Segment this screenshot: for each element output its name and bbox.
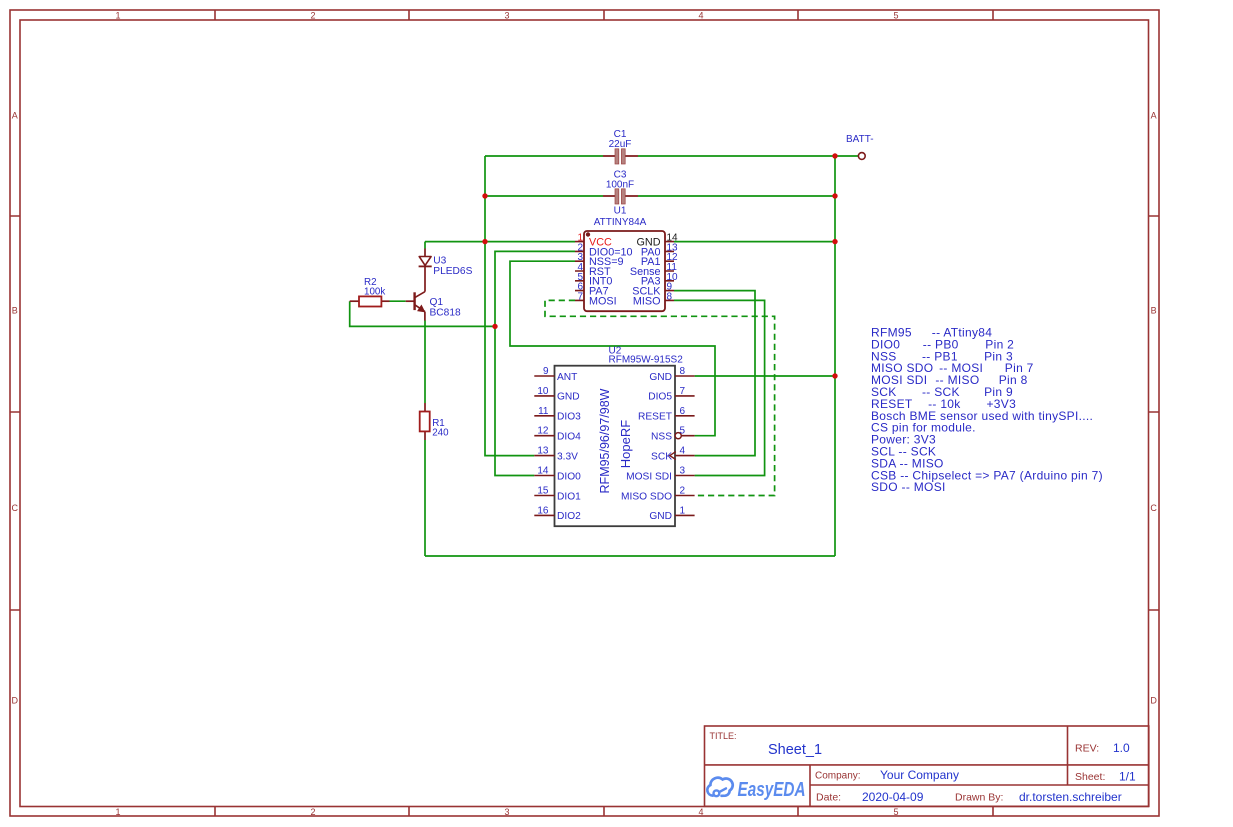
wire R2 to Q1 base bbox=[390, 300, 406, 302]
svg-text:1.0: 1.0 bbox=[1113, 741, 1130, 755]
wire MISO net U1 pin8 to U2 pin3 bbox=[674, 300, 765, 475]
svg-text:8: 8 bbox=[680, 366, 686, 377]
svg-text:Sheet_1: Sheet_1 bbox=[768, 742, 822, 758]
U2 pin5 NSS inversion bubble bbox=[675, 433, 681, 439]
svg-text:1: 1 bbox=[115, 10, 120, 20]
wire right vertical rail x835 bbox=[834, 156, 836, 556]
annotation text block bbox=[871, 326, 1103, 495]
svg-text:U1: U1 bbox=[614, 206, 627, 217]
svg-text:C: C bbox=[1150, 503, 1157, 513]
wire U2 pin8 GND to right rail bbox=[695, 375, 835, 377]
svg-text:REV:: REV: bbox=[1075, 743, 1099, 755]
U1 right pin numbers bbox=[667, 233, 679, 303]
wire left vertical to U2 pin13 3.3V bbox=[485, 156, 534, 456]
junction dots bbox=[482, 153, 837, 378]
U2 left pin stubs 9-16 bbox=[534, 376, 554, 515]
svg-text:3: 3 bbox=[504, 807, 509, 817]
svg-text:3: 3 bbox=[504, 10, 509, 20]
title block texts bbox=[710, 731, 1137, 804]
svg-text:DIO5: DIO5 bbox=[648, 392, 672, 403]
wire NSS net U1 pin3 to U2 pin5 bbox=[510, 261, 715, 436]
svg-text:DIO3: DIO3 bbox=[557, 412, 581, 423]
resistor R1 240 bbox=[420, 403, 449, 440]
svg-text:D: D bbox=[12, 696, 19, 706]
svg-text:RESET: RESET bbox=[638, 412, 672, 423]
wire VCC to U1 pin1 bbox=[425, 241, 575, 243]
U1 left pin numbers bbox=[577, 233, 583, 303]
wire Q1 emitter to R1 bbox=[424, 321, 426, 404]
svg-text:GND: GND bbox=[649, 372, 672, 383]
svg-text:NSS: NSS bbox=[651, 432, 672, 443]
svg-text:8: 8 bbox=[667, 291, 673, 302]
svg-text:4: 4 bbox=[698, 807, 703, 817]
svg-text:HopeRF: HopeRF bbox=[618, 420, 633, 468]
svg-text:2: 2 bbox=[310, 807, 315, 817]
svg-text:SDO -- MOSI: SDO -- MOSI bbox=[871, 480, 946, 494]
title block bbox=[705, 726, 1149, 806]
svg-text:ATTINY84A: ATTINY84A bbox=[594, 217, 647, 228]
U2 right pin names bbox=[621, 372, 672, 522]
svg-text:GND: GND bbox=[649, 511, 672, 522]
wire net C3 row bbox=[485, 195, 835, 197]
U1 right pin names bbox=[630, 237, 661, 308]
svg-text:9: 9 bbox=[543, 366, 549, 377]
svg-text:2: 2 bbox=[310, 10, 315, 20]
wire R1 to bottom rail bbox=[424, 440, 426, 556]
U2 right pin stubs 8-1 bbox=[675, 376, 695, 515]
svg-text:11: 11 bbox=[538, 406, 549, 417]
svg-text:1: 1 bbox=[115, 807, 120, 817]
svg-text:RFM95W-915S2: RFM95W-915S2 bbox=[609, 354, 684, 365]
U2 right pin numbers bbox=[680, 366, 686, 516]
U2 pin4 SCK clock mark bbox=[670, 452, 676, 460]
svg-text:100nF: 100nF bbox=[606, 180, 634, 191]
svg-text:RFM95/96/97/98W: RFM95/96/97/98W bbox=[598, 388, 612, 493]
IC U1 ATTINY84A bbox=[584, 206, 665, 312]
svg-text:7: 7 bbox=[577, 291, 583, 302]
svg-text:A: A bbox=[1151, 111, 1157, 121]
svg-text:PLED6S: PLED6S bbox=[433, 266, 472, 277]
wire R2 base loop bbox=[350, 301, 495, 326]
svg-text:12: 12 bbox=[537, 426, 549, 437]
svg-text:5: 5 bbox=[893, 10, 898, 20]
U1 left pin names bbox=[589, 237, 633, 308]
svg-text:5: 5 bbox=[680, 426, 686, 437]
svg-text:2: 2 bbox=[680, 486, 686, 497]
svg-text:5: 5 bbox=[893, 807, 898, 817]
svg-text:EasyEDA: EasyEDA bbox=[738, 779, 806, 801]
U2 left pin numbers bbox=[537, 366, 549, 516]
wire bottom rail bbox=[425, 555, 835, 557]
svg-text:A: A bbox=[12, 111, 18, 121]
svg-text:240: 240 bbox=[432, 428, 449, 439]
svg-text:C: C bbox=[12, 503, 19, 513]
svg-text:Company:: Company: bbox=[815, 771, 861, 782]
svg-text:dr.torsten.schreiber: dr.torsten.schreiber bbox=[1019, 790, 1122, 804]
svg-text:DIO1: DIO1 bbox=[557, 491, 581, 502]
svg-text:SCK: SCK bbox=[651, 451, 672, 462]
diode U3 PLED6S bbox=[419, 249, 473, 292]
U2 left pin names bbox=[557, 372, 581, 522]
wire SCLK net U1 pin9 to U2 pin4 bbox=[674, 291, 755, 456]
wire net VCC top C1 row bbox=[485, 155, 858, 157]
svg-text:15: 15 bbox=[537, 486, 549, 497]
svg-text:GND: GND bbox=[557, 392, 580, 403]
svg-text:7: 7 bbox=[680, 386, 686, 397]
U1 left pin stubs 1-7 bbox=[575, 242, 584, 301]
svg-text:3: 3 bbox=[680, 466, 686, 477]
svg-text:1: 1 bbox=[680, 505, 686, 516]
svg-text:TITLE:: TITLE: bbox=[710, 731, 737, 741]
capacitor C3 bbox=[603, 170, 638, 205]
svg-text:10: 10 bbox=[537, 386, 549, 397]
svg-text:ANT: ANT bbox=[557, 372, 577, 383]
svg-text:22uF: 22uF bbox=[609, 139, 632, 150]
terminal BATT- bbox=[846, 134, 874, 159]
svg-text:DIO2: DIO2 bbox=[557, 511, 581, 522]
svg-text:MOSI SDI: MOSI SDI bbox=[626, 471, 672, 482]
svg-text:4: 4 bbox=[698, 10, 703, 20]
svg-text:Date:: Date: bbox=[816, 792, 841, 804]
svg-text:DIO4: DIO4 bbox=[557, 432, 581, 443]
svg-text:1/1: 1/1 bbox=[1119, 769, 1136, 783]
svg-text:Drawn By:: Drawn By: bbox=[955, 792, 1003, 804]
svg-text:6: 6 bbox=[680, 406, 686, 417]
svg-text:14: 14 bbox=[537, 466, 549, 477]
resistor R2 100k bbox=[350, 277, 390, 307]
svg-text:4: 4 bbox=[680, 446, 686, 457]
capacitor C1 bbox=[603, 129, 638, 164]
wire DIO0 net U1 pin2 to U2 pin14 bbox=[495, 251, 575, 475]
svg-text:Sheet:: Sheet: bbox=[1075, 771, 1105, 783]
svg-text:BATT-: BATT- bbox=[846, 134, 874, 145]
wire diode anode top bbox=[424, 242, 426, 249]
svg-text:3.3V: 3.3V bbox=[557, 451, 578, 462]
svg-text:MOSI: MOSI bbox=[589, 295, 617, 307]
svg-text:B: B bbox=[1151, 306, 1157, 316]
svg-text:B: B bbox=[12, 306, 18, 316]
svg-text:Your Company: Your Company bbox=[880, 768, 959, 782]
dashed wire MOSI net U1 pin7 to U2 pin2 bbox=[545, 300, 775, 495]
EasyEDA logo bbox=[707, 778, 805, 801]
svg-text:2020-04-09: 2020-04-09 bbox=[862, 790, 924, 804]
svg-text:13: 13 bbox=[537, 446, 549, 457]
svg-text:16: 16 bbox=[537, 505, 549, 516]
IC U2 RFM95W-915S2 bbox=[555, 346, 684, 527]
svg-text:BC818: BC818 bbox=[430, 307, 461, 318]
svg-text:MISO SDO: MISO SDO bbox=[621, 491, 672, 502]
U1 right pin stubs 14-8 bbox=[665, 242, 674, 301]
transistor Q1 BC818 bbox=[406, 292, 461, 321]
svg-text:DIO0: DIO0 bbox=[557, 471, 581, 482]
svg-text:100k: 100k bbox=[364, 287, 385, 298]
wire GND U1 pin14 to right rail bbox=[674, 241, 835, 243]
svg-text:D: D bbox=[1150, 696, 1157, 706]
svg-text:MISO: MISO bbox=[633, 295, 661, 307]
